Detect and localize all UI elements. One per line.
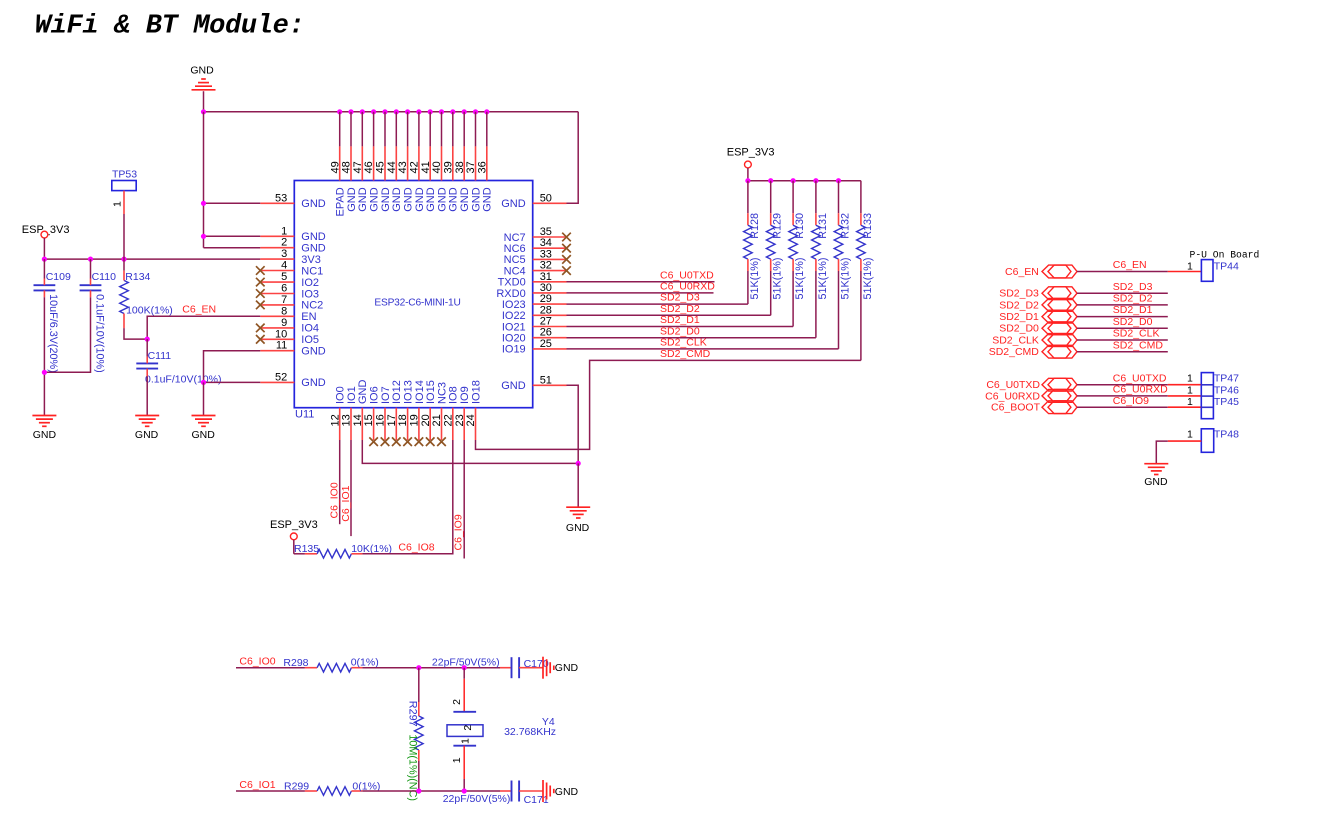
ground GND right of C171 — [543, 780, 579, 802]
resistor R129 — [766, 181, 783, 316]
corner bus R133 — [0, 0, 1, 1]
svg-text:IO20: IO20 — [502, 333, 526, 345]
wire C111 leads — [146, 339, 148, 415]
wire C171 to ground — [519, 790, 543, 792]
svg-text:TP45: TP45 — [1214, 396, 1239, 408]
svg-text:SD2_CLK: SD2_CLK — [992, 334, 1039, 346]
svg-text:100K(1%): 100K(1%) — [126, 305, 173, 317]
wire GND bus horizontal — [204, 111, 579, 113]
svg-text:SD2_D1: SD2_D1 — [660, 314, 700, 326]
U11 bottom pin stubs — [340, 408, 476, 440]
svg-text:SD2_D0: SD2_D0 — [999, 323, 1039, 335]
svg-text:GND: GND — [566, 522, 590, 534]
svg-text:GND: GND — [369, 187, 381, 212]
svg-text:SD2_D3: SD2_D3 — [1113, 281, 1153, 293]
ground GND right of C170 — [543, 657, 579, 679]
svg-text:0.1uF/10V(10%): 0.1uF/10V(10%) — [145, 374, 221, 386]
svg-text:32.768KHz: 32.768KHz — [504, 726, 556, 738]
ground GND TP48 — [1144, 464, 1168, 488]
svg-text:SD2_D3: SD2_D3 — [999, 288, 1039, 300]
svg-text:IO7: IO7 — [380, 386, 392, 404]
svg-text:3V3: 3V3 — [301, 254, 321, 266]
ground GND below pin 52 — [192, 416, 216, 442]
svg-text:GND: GND — [403, 187, 415, 212]
svg-text:2: 2 — [451, 699, 463, 705]
wire C6_IO0 row left — [236, 667, 305, 669]
no-connect X marks right pins 35,34,33,32 — [562, 233, 571, 275]
svg-text:C110: C110 — [92, 271, 116, 283]
wire ESP_3V3 bus — [748, 168, 861, 181]
svg-text:C171: C171 — [524, 794, 549, 806]
wire C6_EN pin 8 — [147, 316, 260, 339]
svg-text:NC2: NC2 — [301, 300, 323, 312]
svg-text:IO9: IO9 — [459, 386, 471, 404]
svg-text:NC7: NC7 — [504, 232, 526, 244]
svg-text:C6_EN: C6_EN — [1113, 259, 1147, 271]
svg-text:GND: GND — [425, 187, 437, 212]
svg-text:GND: GND — [459, 187, 471, 212]
wire C170 to ground — [519, 667, 543, 669]
off-page connector SD2_D0 — [999, 322, 1077, 335]
wire pin 52 — [204, 381, 261, 383]
junction crystal pin2 — [462, 665, 467, 670]
svg-text:SD2_CLK: SD2_CLK — [660, 337, 707, 349]
svg-text:C6_IO9: C6_IO9 — [1113, 395, 1149, 407]
resistor R135 — [294, 543, 392, 558]
svg-text:51K(1%): 51K(1%) — [840, 257, 852, 299]
svg-text:IO18: IO18 — [470, 380, 482, 404]
wire top GND to bus — [203, 91, 205, 112]
testpoint TP53 — [112, 169, 137, 191]
svg-text:SD2_D3: SD2_D3 — [660, 292, 700, 304]
svg-text:R130: R130 — [794, 213, 806, 239]
svg-text:GND: GND — [501, 198, 526, 210]
capacitor C109 — [34, 271, 71, 373]
wire SD2_D0 right section — [1077, 327, 1168, 329]
svg-text:51K(1%): 51K(1%) — [817, 257, 829, 299]
svg-text:SD2_D1: SD2_D1 — [999, 311, 1039, 323]
svg-text:51K(1%): 51K(1%) — [749, 257, 761, 299]
wire C109 leads — [43, 259, 45, 415]
capacitor C111 — [136, 350, 221, 386]
junction/lead bus R128 — [745, 178, 750, 183]
junction rail at C109 — [42, 257, 47, 262]
off-page connector C6_BOOT — [991, 401, 1077, 414]
svg-text:TP44: TP44 — [1214, 261, 1239, 273]
junction/lead bus R129 — [768, 178, 773, 183]
svg-text:GND: GND — [555, 662, 579, 674]
svg-text:GND: GND — [482, 187, 494, 212]
svg-text:NC3: NC3 — [436, 382, 448, 404]
wire pin 2 — [204, 247, 261, 249]
wire net SD2_D0 from pin 26 — [567, 337, 816, 339]
wire gnd vertical to pins 53,1,2 — [203, 112, 205, 248]
wire pin 51 to ground — [567, 385, 579, 463]
wire SD2_CLK right section — [1077, 339, 1168, 341]
svg-text:C6_U0RXD: C6_U0RXD — [985, 390, 1040, 402]
wire net C6_U0RXD from pin 30 — [567, 292, 714, 294]
off-page connector SD2_D1 — [999, 310, 1077, 323]
svg-text:C6_EN: C6_EN — [182, 304, 216, 316]
wire TP48 to ground — [1156, 441, 1201, 464]
svg-text:C6_U0TXD: C6_U0TXD — [1113, 372, 1167, 384]
svg-text:IO3: IO3 — [301, 288, 319, 300]
ground GND mid — [566, 507, 590, 534]
wire R134 leads — [124, 259, 147, 339]
svg-text:GND: GND — [33, 429, 57, 441]
svg-text:R133: R133 — [862, 213, 874, 239]
wire C6_U0TXD to test point — [1077, 384, 1201, 386]
off-page connector SD2_CMD — [989, 345, 1077, 358]
wire pin 13 IO1 — [350, 440, 352, 536]
svg-text:C6_IO1: C6_IO1 — [340, 485, 352, 521]
wire pin 12 IO0 — [339, 440, 341, 524]
testpoint TP44 — [1201, 260, 1239, 282]
off-page connector C6_U0RXD — [985, 390, 1077, 403]
svg-text:IO1: IO1 — [346, 386, 358, 404]
svg-text:1: 1 — [112, 201, 124, 207]
svg-text:SD2_CMD: SD2_CMD — [660, 348, 711, 360]
svg-text:SD2_D0: SD2_D0 — [660, 325, 700, 337]
svg-text:C6_IO9: C6_IO9 — [453, 514, 465, 550]
svg-text:51K(1%): 51K(1%) — [772, 257, 784, 299]
wire SD2_D1 right section — [1077, 316, 1168, 318]
U11 left pin stubs — [260, 203, 294, 382]
wire C6_U0RXD to test point — [1077, 395, 1201, 397]
svg-text:SD2_D2: SD2_D2 — [660, 303, 700, 315]
wire net SD2_CLK from pin 25 — [567, 348, 839, 350]
svg-text:51K(1%): 51K(1%) — [794, 257, 806, 299]
off-page connector SD2_D3 — [999, 287, 1077, 300]
svg-text:IO5: IO5 — [301, 334, 319, 346]
wire SD2_D3 right section — [1077, 292, 1168, 294]
svg-text:SD2_D1: SD2_D1 — [1113, 304, 1153, 316]
svg-text:SD2_D0: SD2_D0 — [1113, 316, 1153, 328]
crystal Y4 — [447, 668, 556, 791]
wire ESP_3V3 to rail — [43, 238, 45, 259]
svg-text:C6_U0TXD: C6_U0TXD — [986, 379, 1040, 391]
wire R299 to C171 — [362, 790, 510, 792]
testpoints TP47 TP46 TP45 stack — [1201, 372, 1239, 418]
svg-text:GND: GND — [555, 786, 579, 798]
svg-text:GND: GND — [192, 429, 216, 441]
svg-text:GND: GND — [301, 346, 326, 358]
svg-text:EN: EN — [301, 311, 316, 323]
svg-text:GND: GND — [380, 187, 392, 212]
svg-text:EPAD: EPAD — [335, 187, 347, 216]
svg-text:22pF/50V(5%): 22pF/50V(5%) — [443, 793, 511, 805]
testpoint TP48 — [1201, 428, 1239, 452]
U11 top pin names — [335, 187, 494, 216]
wire net SD2_CMD from pin 24 IO18 — [476, 360, 861, 449]
svg-text:C6_U0TXD: C6_U0TXD — [660, 269, 714, 281]
svg-text:R298: R298 — [283, 657, 308, 669]
svg-text:GND: GND — [436, 187, 448, 212]
svg-text:GND: GND — [346, 187, 358, 212]
wire TP53 to rail — [123, 191, 125, 214]
junctions bus top pins — [337, 109, 489, 114]
svg-text:2: 2 — [462, 725, 474, 731]
svg-text:IO12: IO12 — [391, 380, 403, 404]
svg-text:C6_U0RXD: C6_U0RXD — [1113, 384, 1168, 396]
U11 left pin numbers — [275, 192, 287, 383]
svg-text:C6_IO0: C6_IO0 — [239, 656, 275, 668]
svg-text:SD2_CLK: SD2_CLK — [1113, 328, 1160, 340]
svg-text:GND: GND — [301, 231, 326, 243]
svg-text:TP47: TP47 — [1214, 372, 1239, 384]
resistor R128 — [744, 181, 761, 304]
svg-text:GND: GND — [190, 65, 214, 77]
junction pin 52 — [201, 380, 206, 385]
no-connect X marks bottom pins 15-21 — [369, 437, 446, 446]
power ESP_3V3 top-left — [22, 224, 70, 238]
svg-text:SD2_CMD: SD2_CMD — [1113, 339, 1164, 351]
wire bus right drop to pin 50 — [566, 112, 578, 204]
wire pin52 junction to ground — [203, 382, 205, 415]
svg-text:TP53: TP53 — [112, 169, 137, 181]
svg-text:WiFi & BT Module:: WiFi & BT Module: — [35, 12, 305, 42]
ground GND below C111 — [135, 416, 159, 442]
capacitor C110 — [80, 271, 116, 373]
svg-text:1: 1 — [1187, 261, 1193, 273]
junction/lead bus R130 — [791, 178, 796, 183]
resistor R299 — [284, 780, 380, 795]
wire net SD2_D1 from pin 27 — [567, 326, 794, 328]
junction/lead bus R131 — [813, 178, 818, 183]
svg-text:C6_IO0: C6_IO0 — [329, 482, 341, 518]
capacitor C170 — [512, 657, 549, 678]
wire junction to ground symbol — [577, 463, 579, 507]
svg-text:IO14: IO14 — [414, 380, 426, 404]
U11 bottom pin names — [335, 380, 483, 405]
svg-text:ESP32-C6-MINI-1U: ESP32-C6-MINI-1U — [374, 298, 460, 309]
resistor R297 — [407, 668, 423, 801]
junction bus left — [201, 109, 206, 114]
ground GND top — [190, 65, 215, 90]
svg-text:1: 1 — [1187, 396, 1193, 408]
svg-text:R132: R132 — [840, 213, 852, 239]
svg-text:NC4: NC4 — [504, 265, 526, 277]
svg-text:GND: GND — [1144, 476, 1168, 488]
resistor R131 — [812, 181, 829, 338]
svg-text:R135: R135 — [294, 543, 319, 555]
svg-text:GND: GND — [414, 187, 426, 212]
junction R134/C111 — [145, 337, 150, 342]
off-page connector C6_U0TXD — [986, 378, 1077, 391]
svg-text:IO19: IO19 — [502, 344, 526, 356]
svg-text:C6_IO8: C6_IO8 — [398, 542, 434, 554]
svg-text:R131: R131 — [817, 213, 829, 239]
off-page connector SD2_CLK — [992, 334, 1077, 347]
svg-text:0(1%): 0(1%) — [351, 656, 379, 668]
svg-text:R128: R128 — [749, 213, 761, 239]
svg-text:GND: GND — [357, 187, 369, 212]
svg-text:IO6: IO6 — [369, 386, 381, 404]
svg-text:TP46: TP46 — [1214, 384, 1239, 396]
svg-text:GND: GND — [448, 187, 460, 212]
U11 right pin stubs — [533, 203, 567, 385]
svg-text:IO15: IO15 — [425, 380, 437, 404]
wire C6_EN right section — [1077, 271, 1201, 273]
svg-text:C111: C111 — [148, 350, 172, 362]
svg-text:1: 1 — [451, 757, 463, 763]
resistor R298 — [283, 656, 378, 672]
svg-text:ESP_3V3: ESP_3V3 — [727, 147, 775, 159]
svg-text:IO8: IO8 — [448, 386, 460, 404]
U11 top pin numbers — [329, 161, 488, 173]
svg-text:51K(1%): 51K(1%) — [862, 257, 874, 299]
wire net SD2_D3 from pin 29 — [567, 303, 748, 305]
wire C6_IO1 row left — [236, 790, 305, 792]
svg-text:NC1: NC1 — [301, 265, 323, 277]
wire net SD2_D2 from pin 28 — [567, 314, 771, 316]
capacitor C171 — [512, 781, 549, 806]
power ESP_3V3 at R135 — [270, 519, 318, 540]
svg-text:GND: GND — [470, 187, 482, 212]
wires top pin drops — [340, 112, 487, 147]
svg-text:NC5: NC5 — [504, 254, 526, 266]
U11 right pin names — [496, 198, 525, 392]
svg-text:IO0: IO0 — [335, 386, 347, 404]
svg-text:TP48: TP48 — [1214, 428, 1239, 440]
svg-text:IO22: IO22 — [502, 310, 526, 322]
wire SD2_D2 right section — [1077, 304, 1168, 306]
svg-text:IO2: IO2 — [301, 277, 319, 289]
svg-text:GND: GND — [501, 380, 526, 392]
svg-text:GND: GND — [301, 377, 326, 389]
svg-text:IO21: IO21 — [502, 321, 526, 333]
junction pin 53 — [201, 201, 206, 206]
IC U11 ESP32-C6-MINI-1U body — [294, 181, 532, 421]
svg-text:C6_BOOT: C6_BOOT — [991, 402, 1041, 414]
svg-text:1: 1 — [1187, 384, 1193, 396]
wire 3V3 rail — [44, 258, 260, 260]
svg-text:1: 1 — [1187, 372, 1193, 384]
wire pin 53 — [204, 202, 261, 204]
svg-text:1: 1 — [460, 738, 472, 744]
junction crystal pin1 — [462, 788, 467, 793]
resistor R130 — [789, 181, 806, 327]
wire pin 11 to gnd — [204, 351, 261, 383]
U11 left pin names — [301, 198, 326, 389]
wire pin 1 — [204, 235, 261, 237]
wire pin 14 GND to ground join — [362, 440, 578, 463]
U11 right pin numbers — [540, 192, 552, 386]
svg-text:SD2_D2: SD2_D2 — [999, 299, 1039, 311]
wire R298 to C170 — [362, 667, 510, 669]
junction pin 1 — [201, 234, 206, 239]
off-page connector SD2_D2 — [999, 299, 1077, 312]
svg-text:P-U On Board: P-U On Board — [1190, 249, 1260, 260]
wire C6_IO9 to test point — [1077, 406, 1201, 408]
wire net C6_U0TXD from pin 31 — [567, 281, 715, 283]
svg-text:GND: GND — [301, 198, 326, 210]
svg-text:IO4: IO4 — [301, 323, 319, 335]
svg-text:R134: R134 — [125, 271, 150, 283]
wire pin 23 IO9 — [463, 440, 465, 559]
wire SD2_CMD right section — [1077, 351, 1168, 353]
off-page connector C6_EN — [1005, 265, 1077, 278]
svg-text:GND: GND — [391, 187, 403, 212]
wire R135 to pin 22 IO8 — [351, 440, 452, 554]
power ESP_3V3 right — [727, 147, 775, 168]
junction C109/C110 ground join — [42, 370, 47, 375]
svg-text:IO13: IO13 — [403, 380, 415, 404]
svg-text:SD2_CMD: SD2_CMD — [989, 346, 1040, 358]
U11 top pin stubs — [340, 146, 487, 180]
junction pin51/pin14 ground — [576, 461, 581, 466]
junction/lead bus R132 — [836, 178, 841, 183]
svg-text:U11: U11 — [295, 409, 314, 421]
junction rail at C110 — [88, 257, 93, 262]
svg-text:10uF/6.3V(20%): 10uF/6.3V(20%) — [47, 294, 59, 373]
svg-text:C6_IO1: C6_IO1 — [239, 779, 275, 791]
resistor R133 — [857, 181, 874, 361]
resistor R134 — [120, 271, 173, 317]
ground GND below C109 — [32, 416, 56, 442]
svg-text:R129: R129 — [772, 213, 784, 239]
svg-text:ESP_3V3: ESP_3V3 — [270, 519, 318, 531]
resistor R132 — [834, 181, 851, 349]
junction R297 bottom — [416, 788, 421, 793]
svg-text:R297: R297 — [407, 701, 419, 727]
U11 bottom pin numbers — [329, 414, 477, 426]
svg-text:IO23: IO23 — [502, 299, 526, 311]
junction R297 top — [416, 665, 421, 670]
svg-text:0.1uF/10V(10%): 0.1uF/10V(10%) — [93, 294, 105, 373]
svg-text:GND: GND — [301, 243, 326, 255]
wire C110 leads to gnd join — [44, 259, 90, 372]
svg-text:GND: GND — [135, 429, 159, 441]
wire ESP_3V3 to R135 — [294, 540, 317, 554]
svg-text:SD2_D2: SD2_D2 — [1113, 293, 1153, 305]
junction rail at TP53/R134 — [121, 257, 126, 262]
svg-text:22pF/50V(5%): 22pF/50V(5%) — [432, 656, 500, 668]
svg-text:GND: GND — [357, 380, 369, 405]
svg-text:TXD0: TXD0 — [498, 277, 526, 289]
svg-text:1: 1 — [1187, 428, 1193, 440]
svg-text:NC6: NC6 — [504, 243, 526, 255]
svg-text:C6_EN: C6_EN — [1005, 266, 1039, 278]
no-connect X marks left pins 4,5,6,7,9,10 — [256, 266, 265, 343]
svg-text:C109: C109 — [46, 271, 71, 283]
